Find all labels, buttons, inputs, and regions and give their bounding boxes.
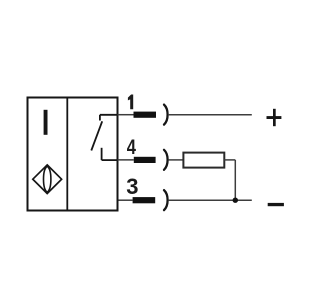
wire corner down (234, 160, 236, 200)
svg-text:4: 4 (127, 136, 136, 159)
svg-text:3: 3 (126, 174, 138, 199)
active face bar (44, 110, 48, 135)
pin 1 socket arc (164, 105, 168, 125)
plus terminal (267, 109, 282, 126)
wire pin3 stub (119, 199, 133, 201)
wire pin4 to load (168, 159, 183, 161)
label pin 1 (128, 95, 133, 110)
wire pin1 to plus (168, 114, 252, 116)
sensor body divider (66, 98, 68, 211)
switch contact S1 (91, 115, 117, 160)
wire pin3 to minus (168, 199, 252, 201)
inductive sensor diamond (33, 165, 62, 194)
minus terminal (268, 203, 284, 206)
wire pin1 stub (118, 114, 134, 116)
inductive sensor coil lens (44, 166, 51, 192)
wire load to corner (224, 159, 235, 161)
pin 3 plug (133, 197, 156, 203)
pin 4 plug (134, 157, 156, 163)
pin 3 socket arc (164, 190, 168, 210)
pin 4 socket arc (164, 150, 168, 170)
sensor body outline (28, 98, 118, 211)
pin 1 plug (134, 112, 157, 118)
wire pin4 stub (118, 159, 134, 161)
load resistor (183, 153, 224, 168)
junction node (233, 198, 238, 203)
